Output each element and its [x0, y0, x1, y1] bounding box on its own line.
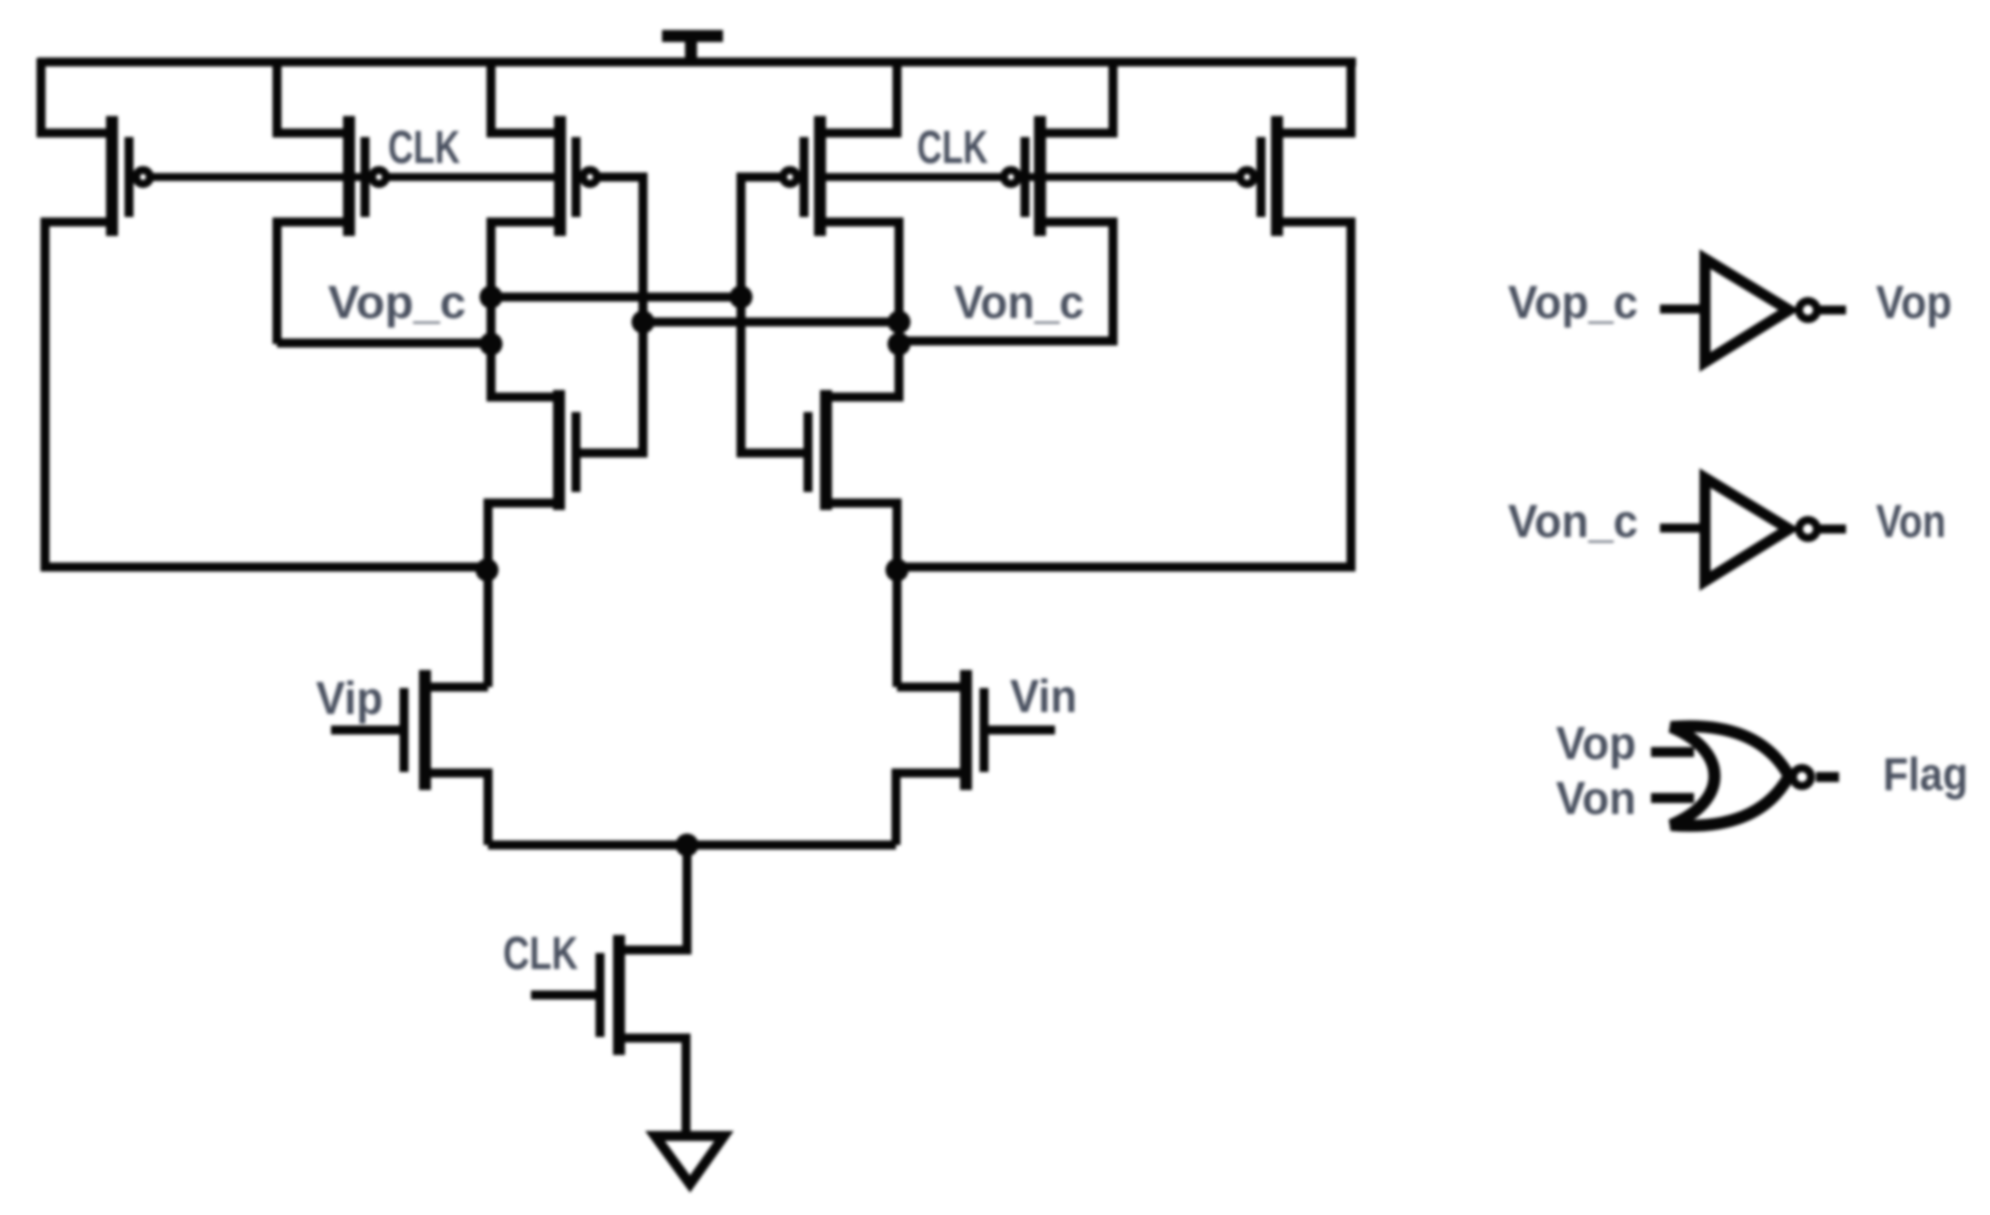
VDD supply symbol — [662, 34, 723, 62]
transistor M7 (right CLK precharge PMOS) — [1004, 116, 1040, 236]
wire cross line upper (Vop_c to right gates) — [491, 293, 741, 302]
wire M3 source to rail — [491, 58, 556, 133]
wire M11 source to ground — [615, 1038, 686, 1136]
node junction dot: right gates on upper cross — [730, 286, 753, 309]
wire U2 input — [1660, 524, 1707, 533]
wire node Y to input pair drain — [897, 683, 970, 692]
wire VDD rail — [38, 58, 1356, 67]
wire cross line lower (Von_c to left gates) — [643, 318, 899, 327]
svg-text:Vop: Vop — [1556, 717, 1636, 769]
wire U1 input — [1660, 305, 1707, 314]
svg-text:Flag: Flag — [1883, 748, 1968, 800]
svg-text:Vip: Vip — [316, 672, 383, 724]
svg-text:Von_c: Von_c — [954, 276, 1084, 328]
node junction dot: Von_c lower cross — [888, 311, 911, 334]
wire M8 source to rail (right corner) — [1281, 58, 1351, 133]
inverter U2 (Von_c to Von) — [1705, 478, 1817, 581]
transistor M6 (right cross-coupled NMOS) — [808, 390, 826, 510]
node junction dot: node Y — [886, 559, 909, 582]
wire Vin gate lead — [980, 726, 1055, 735]
wire CLK gate line (left) — [151, 173, 556, 181]
wire tail node horizontal — [488, 841, 896, 850]
wire M9 source down to tail — [421, 773, 488, 845]
wire Von_c node horizontal to M7 drain — [899, 222, 1113, 341]
ground — [655, 1136, 724, 1184]
transistor M10 (input NMOS, Vin) — [966, 670, 984, 790]
wire M10 source down to tail — [896, 773, 970, 845]
node junction dot: Vop_c wire — [480, 333, 503, 356]
svg-text:Vop_c: Vop_c — [328, 276, 466, 328]
wire M4 source to rail — [824, 58, 897, 133]
transistor M3 (left cross-coupled PMOS) — [560, 116, 597, 236]
wire M5 source to node X — [488, 503, 555, 687]
wire M1 drain down left edge to node X — [45, 222, 482, 567]
wire M7 source to rail — [1044, 58, 1113, 133]
wire M8 drain down right edge to node Y — [902, 222, 1351, 567]
transistor M9 (input NMOS, Vip) — [404, 670, 425, 790]
node junction dot: Vop_c upper cross — [480, 286, 503, 309]
transistor M5 (left cross-coupled NMOS) — [559, 390, 576, 510]
wire U3 input A — [1651, 747, 1694, 757]
svg-text:Vop: Vop — [1876, 276, 1952, 328]
wire M2 drain down to Vop_c — [277, 222, 345, 344]
inverter U1 (Vop_c to Vop) — [1705, 259, 1817, 362]
wire M4 drain down through Von_c node to M6 drain — [824, 222, 899, 397]
svg-text:CLK: CLK — [917, 121, 988, 173]
transistor M2 (left CLK precharge PMOS) — [349, 116, 386, 236]
wire U3 input B — [1651, 793, 1694, 803]
wire tail node to M11 drain — [615, 845, 687, 950]
svg-text:Von_c: Von_c — [1508, 495, 1638, 547]
node junction dot: Von_c wire — [888, 333, 911, 356]
wire Vip gate lead — [331, 726, 408, 735]
wire U3 output — [1816, 772, 1839, 782]
wire U1 output — [1820, 306, 1846, 315]
wire node X to input pair drain — [421, 683, 488, 692]
wire M1 source to rail (left corner) — [41, 58, 108, 133]
wire M2 source to rail — [277, 58, 345, 133]
svg-text:CLK: CLK — [388, 121, 460, 173]
wire M3 drain down through Vop_c node to M5 drain — [491, 222, 556, 397]
svg-text:Vin: Vin — [1010, 670, 1077, 722]
node junction dot: node X — [476, 559, 499, 582]
wire Vop_c node horizontal — [277, 339, 491, 348]
wire M6 source to node Y — [830, 503, 897, 687]
NOR gate U3 (Vop,Von to Flag) — [1671, 726, 1811, 826]
node junction dot: tail node — [676, 834, 699, 857]
svg-text:Von: Von — [1876, 495, 1946, 547]
transistor M11 (tail NMOS, CLK) — [600, 935, 619, 1055]
transistor M1 (left outer PMOS) — [112, 116, 150, 236]
node junction dot: left gates on lower cross — [632, 311, 655, 334]
svg-text:Vop_c: Vop_c — [1508, 276, 1638, 328]
wire M3+M5 gates to Von_c (cross-couple, down at x643) — [580, 177, 643, 453]
svg-text:Von: Von — [1556, 772, 1636, 824]
svg-text:CLK: CLK — [503, 927, 578, 979]
wire U2 output — [1820, 525, 1846, 534]
wire tail CLK gate lead — [531, 991, 596, 1000]
wire CLK gate line (right) — [826, 173, 1239, 181]
transistor M4 (right cross-coupled PMOS) — [783, 116, 820, 236]
transistor M8 (right outer PMOS) — [1240, 116, 1277, 236]
wire M4+M6 gates to Vop_c (cross-couple, down at x741) — [741, 177, 812, 453]
